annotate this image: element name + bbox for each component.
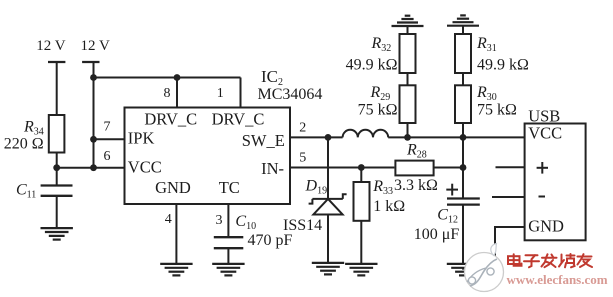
svg-text:GND: GND [528, 217, 564, 236]
svg-text:3.3 kΩ: 3.3 kΩ [394, 177, 438, 194]
svg-text:4: 4 [165, 212, 172, 227]
svg-text:IN-: IN- [261, 159, 284, 178]
svg-text:49.9 kΩ: 49.9 kΩ [477, 57, 529, 74]
svg-text:49.9 kΩ: 49.9 kΩ [346, 57, 398, 74]
svg-text:5: 5 [299, 151, 306, 166]
svg-text:100 μF: 100 μF [414, 226, 460, 243]
svg-text:DRV_C: DRV_C [144, 110, 197, 129]
svg-text:2: 2 [299, 121, 306, 136]
svg-text:7: 7 [104, 119, 111, 134]
svg-text:SW_E: SW_E [242, 131, 285, 150]
svg-text:IPK: IPK [128, 129, 155, 148]
svg-text:1 kΩ: 1 kΩ [373, 198, 405, 215]
svg-text:GND: GND [155, 178, 191, 197]
svg-text:VCC: VCC [128, 158, 162, 177]
svg-text:www.elecfans.com: www.elecfans.com [507, 272, 608, 287]
svg-text:220 Ω: 220 Ω [4, 136, 44, 153]
svg-text:6: 6 [104, 149, 111, 164]
svg-text:8: 8 [164, 86, 171, 101]
svg-text:ISS14: ISS14 [283, 217, 322, 234]
svg-text:VCC: VCC [528, 124, 562, 143]
svg-text:1: 1 [217, 86, 224, 101]
svg-text:75 kΩ: 75 kΩ [477, 101, 517, 118]
svg-text:12 V: 12 V [81, 38, 110, 54]
svg-text:TC: TC [219, 178, 240, 197]
svg-text:470 pF: 470 pF [248, 232, 293, 249]
svg-text:3: 3 [216, 213, 223, 228]
svg-text:DRV_C: DRV_C [212, 110, 265, 129]
svg-text:MC34064: MC34064 [258, 86, 323, 103]
svg-text:75 kΩ: 75 kΩ [358, 101, 398, 118]
svg-text:12 V: 12 V [36, 38, 65, 54]
